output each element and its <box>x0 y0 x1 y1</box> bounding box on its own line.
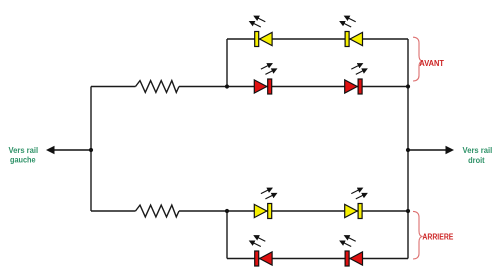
wire row4 (red LEDs ARRIERE) <box>227 258 408 260</box>
arrow to right rail <box>408 146 454 154</box>
wire row2 (red LEDs AVANT) <box>227 86 408 88</box>
LED D4 red right-pointing row2 col2 <box>345 64 367 94</box>
LED D1 yellow left-pointing row1 col1 <box>250 16 272 46</box>
LED D6 yellow right-pointing row3 col2 <box>345 188 367 218</box>
LED D5 yellow right-pointing row3 col1 <box>254 188 276 218</box>
svg-text:ARRIERE: ARRIERE <box>422 233 454 242</box>
node B junction dot <box>225 209 229 213</box>
LED D8 red left-pointing row4 col2 <box>340 236 362 266</box>
wire row1 (yellow LEDs AVANT) <box>227 38 408 40</box>
svg-text:Vers rail: Vers rail <box>8 146 38 155</box>
svg-text:gauche: gauche <box>10 156 36 165</box>
wire bottom feed (left bus to resistor R2) <box>91 210 136 212</box>
node right-arrow junction dot <box>406 148 410 152</box>
wire resistor R2 to node B <box>179 210 227 212</box>
wire branch up at node A <box>226 39 228 87</box>
node right-row3 junction dot <box>406 209 410 213</box>
resistor R1 <box>136 81 180 93</box>
LED D7 red left-pointing row4 col1 <box>250 236 272 266</box>
wire branch down at node B <box>226 211 228 259</box>
node right-row2 junction dot <box>406 84 410 88</box>
svg-text:Vers rail: Vers rail <box>463 146 493 155</box>
wire row3 (yellow LEDs ARRIERE) <box>227 210 408 212</box>
wire right bus vertical <box>407 39 409 259</box>
resistor R2 <box>136 205 180 217</box>
brace AVANT <box>413 37 423 81</box>
node A junction dot <box>225 84 229 88</box>
brace ARRIERE <box>413 211 423 259</box>
wire resistor R1 to node A <box>179 86 227 88</box>
LED D2 yellow left-pointing row1 col2 <box>340 16 362 46</box>
svg-text:AVANT: AVANT <box>419 59 444 68</box>
wire left bus vertical <box>90 87 92 212</box>
svg-text:droit: droit <box>468 156 485 165</box>
wire top feed (left bus to resistor R1) <box>91 86 136 88</box>
LED D3 red right-pointing row2 col1 <box>254 64 276 94</box>
node left-arrow junction dot <box>89 148 93 152</box>
arrow to left rail <box>46 146 91 154</box>
